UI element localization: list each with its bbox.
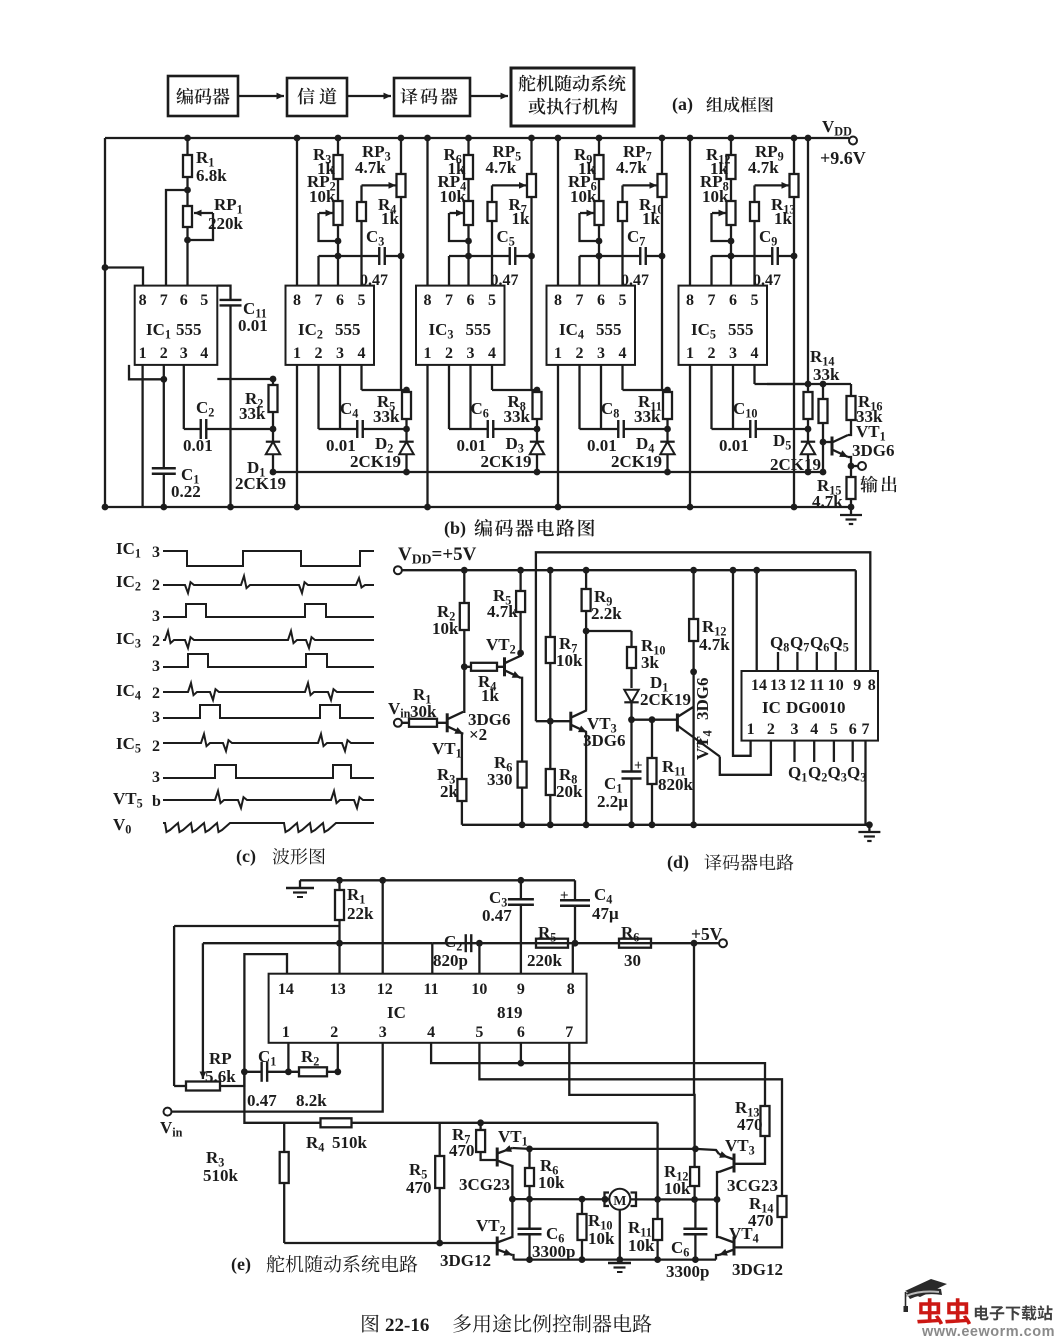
svg-text:7: 7 [862, 721, 870, 738]
svg-text:1k: 1k [381, 209, 400, 228]
svg-text:10k: 10k [628, 1236, 655, 1255]
svg-text:8: 8 [293, 292, 301, 309]
resistor R2 33k [239, 379, 278, 441]
svg-text:220k: 220k [208, 214, 244, 233]
wire ground rail decoder [462, 824, 870, 826]
terminal Vin servo [160, 1043, 383, 1140]
resistor R2 10k [432, 567, 469, 670]
svg-text:10: 10 [471, 981, 487, 998]
capacitor C6 3300p left [517, 1196, 576, 1263]
transistor VT3 3DG6 [571, 631, 626, 828]
svg-text:10k: 10k [570, 187, 597, 206]
svg-text:10k: 10k [556, 651, 583, 670]
wire bottom row servo [514, 1258, 717, 1260]
svg-text:3CG23: 3CG23 [459, 1175, 510, 1194]
resistor R14 470 servo [734, 1194, 787, 1247]
svg-text:3: 3 [152, 544, 160, 561]
transistor VT4 3DG12 servo [714, 1196, 783, 1279]
svg-text:10k: 10k [702, 187, 729, 206]
potentiometer RP7 4.7k [596, 135, 667, 260]
block 舵机随动系统或执行机构 [511, 68, 634, 126]
svg-text:555: 555 [728, 320, 754, 339]
svg-text:6: 6 [849, 721, 857, 738]
wire pin2 stub [578, 365, 580, 429]
svg-text:0.01: 0.01 [238, 316, 268, 335]
svg-text:2: 2 [152, 685, 160, 702]
encoder stage 3 [416, 135, 544, 511]
wire upper rail [536, 552, 870, 721]
svg-text:1: 1 [139, 345, 147, 362]
svg-text:10k: 10k [588, 1229, 615, 1248]
resistor R11 10k servo [628, 1218, 662, 1263]
svg-text:2: 2 [315, 345, 323, 362]
svg-text:(e): (e) [231, 1254, 251, 1275]
svg-text:4.7k: 4.7k [355, 158, 386, 177]
op-amp U IC3 555 timer box [416, 286, 505, 365]
svg-text:9: 9 [853, 677, 861, 694]
resistor base 33k [819, 384, 828, 445]
op-amp U IC4 555 timer box [547, 286, 636, 365]
wire stage left rail [424, 135, 431, 511]
decoder section (d) [388, 544, 880, 873]
block 编码器 [168, 76, 238, 116]
capacitor C3 0.47 servo [482, 877, 535, 974]
svg-text:5: 5 [830, 721, 838, 738]
potentiometer RP5 4.7k [465, 135, 536, 260]
svg-text:33k: 33k [504, 407, 531, 426]
svg-text:2CK19: 2CK19 [350, 452, 401, 471]
svg-text:7: 7 [565, 1024, 573, 1041]
resistor R1 22k servo [335, 877, 374, 974]
svg-text:+: + [634, 758, 643, 774]
potentiometer RP4 10k [438, 172, 474, 286]
svg-text:5: 5 [488, 292, 496, 309]
potentiometer RP 5.6k [174, 943, 244, 1090]
svg-text:6: 6 [336, 292, 344, 309]
svg-text:11: 11 [809, 677, 824, 694]
transistor VT2 3DG12 servo [440, 1196, 516, 1270]
svg-text:13: 13 [330, 981, 346, 998]
svg-text:2: 2 [152, 633, 160, 650]
wire VT3 base row [536, 720, 571, 722]
capacitor C1 0.47 servo [244, 1047, 288, 1110]
wire R11 column [654, 1123, 661, 1219]
capacitor C2 820p [433, 932, 471, 970]
label Vin [388, 699, 411, 721]
transistor VT1 3DG6 [432, 667, 511, 779]
resistor R9 2.2k [582, 567, 623, 635]
svg-text:1: 1 [424, 345, 432, 362]
resistor R2 8.2k servo [288, 1047, 337, 1110]
capacitor C8 0.01 [580, 399, 668, 455]
resistor R4 1k wiper [357, 182, 400, 286]
svg-text:510k: 510k [203, 1166, 239, 1185]
wire arrow 信道->译码器 [347, 93, 391, 100]
svg-text:470: 470 [406, 1178, 432, 1197]
resistor R11 820k [648, 716, 694, 828]
svg-text:1: 1 [293, 345, 301, 362]
label VT4 3DG6 vertical [693, 678, 715, 761]
svg-text:VDD=+5V: VDD=+5V [398, 544, 477, 567]
svg-text:4: 4 [751, 345, 759, 362]
resistor R12 10k servo [664, 1149, 699, 1203]
wire output row [767, 381, 851, 388]
svg-text:470: 470 [737, 1115, 763, 1134]
svg-text:3DG12: 3DG12 [732, 1260, 783, 1279]
labels Q8 Q7 Q6 Q5 [770, 633, 849, 655]
svg-text:4: 4 [427, 1024, 435, 1041]
waveform VT5 base [113, 789, 374, 811]
encoder stage 4 [547, 135, 675, 511]
svg-text:b: b [152, 793, 161, 810]
wire arrow 编码器->信道 [238, 93, 284, 100]
wire ground bottom bus [105, 506, 851, 508]
svg-text:4.7k: 4.7k [616, 158, 647, 177]
svg-text:RP: RP [209, 1049, 232, 1068]
svg-text:2: 2 [152, 577, 160, 594]
terminal VDD +9.6V [820, 117, 866, 168]
wire pin3 stub [469, 365, 471, 429]
potentiometer RP1 220k [183, 187, 244, 286]
resistor R1 6.8k [183, 135, 227, 206]
svg-text:3: 3 [379, 1024, 387, 1041]
svg-text:2: 2 [708, 345, 716, 362]
wire pin7 stub [710, 256, 712, 286]
svg-text:10k: 10k [664, 1179, 691, 1198]
terminal +5V servo [432, 924, 727, 947]
svg-text:510k: 510k [332, 1133, 368, 1152]
svg-text:IC: IC [387, 1003, 406, 1022]
resistor R12 1k [706, 135, 736, 201]
resistor R6 1k [444, 135, 474, 201]
svg-text:+5V: +5V [691, 924, 723, 944]
svg-text:6: 6 [467, 292, 475, 309]
diode D4 2CK19 [611, 434, 675, 475]
wire pot side vertical [530, 256, 532, 390]
svg-text:33k: 33k [239, 404, 266, 423]
transistor VT2 3DG6 [486, 635, 522, 762]
svg-text:2: 2 [445, 345, 453, 362]
svg-text:819: 819 [497, 1003, 523, 1022]
op-amp U IC5 555 timer box [679, 286, 768, 365]
wire VDD rail [402, 569, 856, 571]
svg-text:20k: 20k [556, 782, 583, 801]
svg-text:4.7k: 4.7k [748, 158, 779, 177]
svg-text:0.22: 0.22 [171, 482, 201, 501]
svg-text:3k: 3k [641, 653, 660, 672]
wire pin4 to resistor row [492, 365, 540, 394]
figure caption 图22-16 [362, 1314, 651, 1336]
wire stage left rail [555, 135, 562, 511]
svg-text:3: 3 [152, 608, 160, 625]
wire pin12 to rail [379, 877, 386, 974]
caption (b) 编码器电路图 [444, 518, 594, 539]
diode D3 2CK19 [481, 434, 545, 475]
labels Q1 Q2 Q3 Q3 [788, 763, 866, 785]
svg-text:6: 6 [517, 1024, 525, 1041]
IC DG0010 box [742, 671, 879, 741]
svg-text:(c): (c) [236, 846, 256, 867]
svg-text:5: 5 [200, 292, 208, 309]
svg-text:8.2k: 8.2k [296, 1091, 327, 1110]
svg-text:2CK19: 2CK19 [770, 455, 821, 474]
wire pin4 to resistor row [362, 365, 410, 394]
potentiometer RP8 10k [700, 172, 736, 286]
resistor R9 1k [574, 135, 604, 201]
svg-text:2: 2 [767, 721, 775, 738]
svg-text:2CK19: 2CK19 [611, 452, 662, 471]
resistor R5b 470 servo [406, 1123, 444, 1247]
encoder output stage [767, 135, 897, 524]
resistor R10 1k wiper [618, 182, 663, 286]
logo graduation cap [904, 1279, 948, 1312]
waveform IC3 pin2 [116, 629, 374, 651]
svg-text:555: 555 [176, 320, 202, 339]
logo 电子下载站 [975, 1305, 1053, 1320]
waveform IC4 pin3 [152, 705, 374, 726]
wire Q1 Q2 Q3 Q3 stubs [795, 741, 853, 762]
IC 819 box [269, 974, 587, 1043]
svg-text:9: 9 [517, 981, 525, 998]
capacitor C4 47u electrolytic servo [559, 880, 619, 946]
logo eeworm [904, 1279, 1055, 1337]
resistor R8 33k [504, 390, 542, 441]
svg-text:0.01: 0.01 [719, 436, 749, 455]
block diagram (a) [168, 68, 773, 126]
svg-text:4: 4 [200, 345, 208, 362]
svg-text:555: 555 [335, 320, 361, 339]
resistor R3 1k [313, 135, 343, 201]
waveform diagram (c) [113, 539, 374, 867]
svg-text:3: 3 [152, 658, 160, 675]
resistor R7 10k [546, 567, 583, 725]
ground servo top [286, 880, 314, 897]
svg-text:2: 2 [330, 1024, 338, 1041]
svg-text:8: 8 [139, 292, 147, 309]
svg-text:(d): (d) [667, 852, 689, 873]
encoder stage 5 [679, 135, 841, 511]
svg-text:8: 8 [567, 981, 575, 998]
svg-text:×2: ×2 [469, 725, 487, 744]
waveform IC4 pin2 [116, 681, 374, 703]
resistor R5 4.7k [487, 567, 525, 657]
wire +5V column [693, 943, 695, 1095]
wire servo top rail [300, 879, 575, 881]
ground decoder [858, 821, 880, 841]
svg-text:+9.6V: +9.6V [820, 148, 866, 168]
wire rail to IC pin9 [855, 570, 857, 671]
transistor VT4 3DG6 [632, 707, 771, 775]
wire pin3 stub [600, 365, 602, 429]
svg-text:11: 11 [424, 981, 439, 998]
svg-text:1: 1 [686, 345, 694, 362]
svg-text:3DG12: 3DG12 [440, 1251, 491, 1270]
svg-text:3300p: 3300p [666, 1262, 709, 1281]
wire stage left rail [687, 135, 694, 511]
wire pin4 row to R13 [431, 1043, 765, 1106]
capacitor C 10 0.01 [712, 399, 809, 455]
svg-text:2: 2 [152, 738, 160, 755]
svg-text:4: 4 [488, 345, 496, 362]
svg-text:6.8k: 6.8k [196, 166, 227, 185]
capacitor C1 2.2u electrolytic [597, 720, 643, 828]
svg-text:820k: 820k [658, 775, 694, 794]
diode D1 2CK19 [235, 442, 286, 493]
resistor R3 2k [437, 765, 466, 825]
wire pin7 stub [578, 256, 580, 286]
resistor R3 510k servo [203, 1123, 289, 1243]
svg-text:8: 8 [868, 677, 876, 694]
svg-text:3: 3 [152, 769, 160, 786]
svg-text:www.eeworm.com: www.eeworm.com [921, 1324, 1055, 1337]
resistor R10 10k servo [578, 1196, 616, 1263]
svg-text:1k: 1k [481, 686, 500, 705]
svg-text:7: 7 [160, 292, 168, 309]
svg-text:1: 1 [747, 721, 755, 738]
wire pin2 stub [710, 365, 712, 429]
diode D2 2CK19 [350, 434, 414, 475]
capacitor C3 0.47 [319, 227, 402, 289]
resistor R6 330 [487, 753, 527, 828]
wire pin4 to resistor row [623, 365, 671, 394]
svg-text:30: 30 [624, 951, 641, 970]
svg-text:555: 555 [596, 320, 622, 339]
wire pin2 stub [317, 365, 319, 429]
logo www.eeworm.com [921, 1324, 1055, 1337]
wire R4 row [244, 1072, 657, 1123]
svg-text:4.7k: 4.7k [486, 158, 517, 177]
waveform V0 output [113, 815, 374, 837]
svg-text:+: + [560, 888, 569, 904]
resistor R7 470 servo [449, 1119, 497, 1160]
svg-text:8: 8 [424, 292, 432, 309]
svg-text:3300p: 3300p [532, 1242, 575, 1261]
svg-text:13: 13 [770, 677, 786, 694]
resistor R6 10k servo bridge [525, 1149, 565, 1199]
svg-text:2.2k: 2.2k [591, 604, 622, 623]
svg-text:1k: 1k [512, 209, 531, 228]
wire pin5 row to R14 [479, 1043, 782, 1196]
wire pot side vertical [791, 256, 798, 510]
svg-text:6: 6 [597, 292, 605, 309]
svg-text:4.7k: 4.7k [487, 602, 518, 621]
wire pin14 bracket [241, 954, 287, 1075]
transistor VT1 3CG23 servo [459, 1127, 530, 1199]
svg-text:5: 5 [358, 292, 366, 309]
wire outer loop row1 [174, 926, 339, 1086]
svg-text:M: M [613, 1194, 626, 1209]
resistor R1 30k input [394, 685, 447, 727]
svg-text:3: 3 [791, 721, 799, 738]
svg-text:3DG6: 3DG6 [583, 731, 626, 750]
wire R9 to R10 row [586, 630, 631, 632]
wire IC pin7 to ground [864, 741, 866, 825]
svg-text:(b): (b) [444, 518, 466, 539]
wire base col to coupling row [820, 442, 827, 475]
svg-text:22k: 22k [347, 904, 374, 923]
svg-text:4: 4 [810, 721, 818, 738]
caption (e) 舵机随动系统电路 [231, 1254, 418, 1275]
svg-text:6: 6 [729, 292, 737, 309]
svg-text:10: 10 [828, 677, 844, 694]
resistor R4 1k [464, 663, 504, 705]
op-amp U IC1 555 timer box [135, 286, 218, 365]
wire VT2 base row servo [284, 1242, 497, 1244]
resistor R7 1k wiper [488, 182, 531, 286]
svg-text:DG0010: DG0010 [786, 698, 846, 717]
wire IC1 left output hook [129, 365, 167, 383]
wire C4 col to IC pin8 [572, 943, 574, 974]
svg-text:5.6k: 5.6k [205, 1067, 236, 1086]
svg-text:2CK19: 2CK19 [481, 452, 532, 471]
resistor R4 510k servo [306, 1118, 368, 1154]
wire VDD top bus [105, 137, 849, 139]
waveform IC3 pin3 [152, 654, 374, 675]
svg-text:3CG23: 3CG23 [727, 1176, 778, 1195]
resistor R11 33k [634, 390, 672, 441]
svg-text:22-16: 22-16 [385, 1315, 429, 1336]
wire pin3 stub [732, 365, 734, 429]
capacitor C1 0.22 [151, 365, 201, 511]
capacitor C4 0.01 [319, 399, 407, 455]
svg-text:7: 7 [315, 292, 323, 309]
svg-text:10k: 10k [538, 1173, 565, 1192]
svg-text:7: 7 [445, 292, 453, 309]
svg-text:5: 5 [475, 1024, 483, 1041]
caption (c) 波形图 [236, 846, 325, 867]
wire pin7 stub [317, 256, 319, 286]
servo section (e) [160, 877, 787, 1281]
svg-text:IC: IC [762, 698, 781, 717]
svg-text:5: 5 [751, 292, 759, 309]
resistor R15 4.7k [812, 466, 856, 511]
svg-text:3: 3 [467, 345, 475, 362]
capacitor C7 0.47 [580, 227, 663, 289]
label VDD=+5V [398, 544, 477, 567]
svg-text:5: 5 [619, 292, 627, 309]
svg-text:0.01: 0.01 [183, 436, 213, 455]
svg-text:14: 14 [278, 981, 294, 998]
wire left rail [102, 138, 109, 510]
svg-text:470: 470 [449, 1141, 475, 1160]
svg-text:4: 4 [619, 345, 627, 362]
capacitor C5 0.47 [449, 227, 532, 289]
resistor R13 1k wiper [750, 182, 795, 286]
ground encoder [840, 507, 862, 524]
transistor VT1 3DG6 output [823, 422, 895, 466]
svg-text:1k: 1k [642, 209, 661, 228]
svg-text:1k: 1k [774, 209, 793, 228]
svg-text:555: 555 [466, 320, 492, 339]
encoder section (b) [102, 117, 897, 524]
block 译码器 [394, 78, 470, 116]
svg-text:3: 3 [152, 709, 160, 726]
svg-text:3: 3 [336, 345, 344, 362]
svg-text:2: 2 [160, 345, 168, 362]
svg-text:8: 8 [554, 292, 562, 309]
svg-text:(a): (a) [672, 94, 693, 115]
svg-text:2: 2 [576, 345, 584, 362]
svg-text:14: 14 [751, 677, 767, 694]
wire pin1 stub down [285, 1043, 292, 1075]
potentiometer RP3 4.7k [335, 135, 406, 260]
wire right rail from bus [805, 135, 812, 384]
waveform IC2 pin3 [152, 604, 374, 625]
waveform IC5 pin2 [116, 734, 374, 756]
op-amp U IC2 555 timer box [286, 286, 375, 365]
svg-text:2CK19: 2CK19 [640, 690, 691, 709]
capacitor C2 0.01 [183, 398, 273, 455]
